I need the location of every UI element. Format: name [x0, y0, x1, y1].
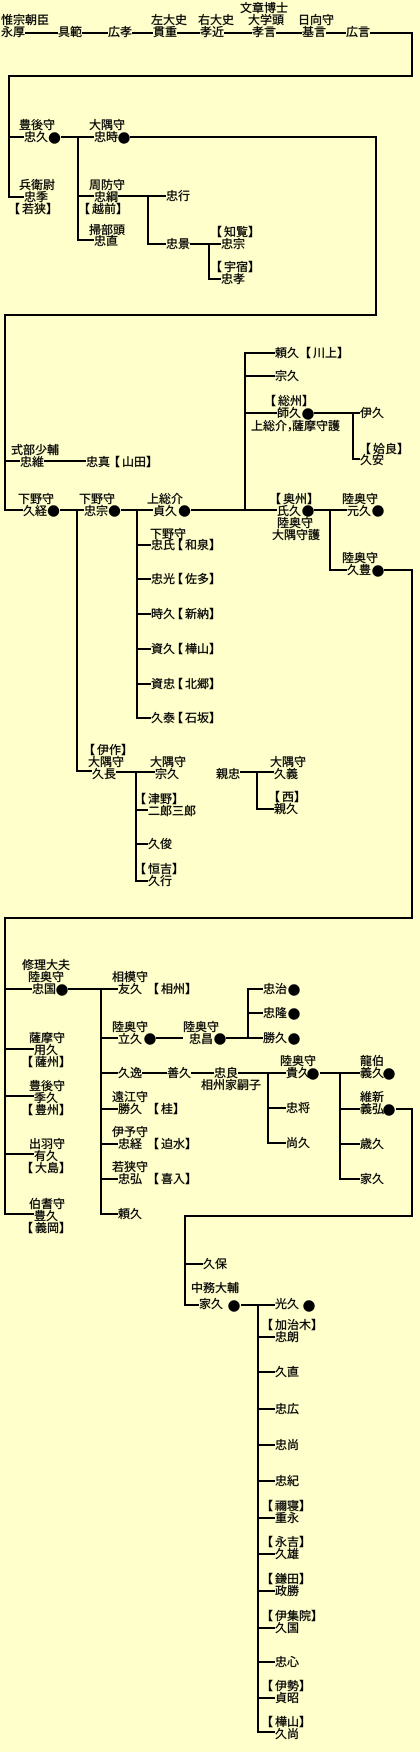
person 永厚 [1, 26, 24, 37]
wire 忠維-忠真 [44, 460, 86, 462]
person 伊久 [360, 407, 383, 418]
wire wrap3 vertical right [411, 569, 413, 919]
title 大隅守 [151, 756, 186, 767]
wire stub 二郎三郎 [137, 809, 148, 811]
family 津野 [142, 793, 176, 804]
title 掃部頭 [89, 224, 124, 235]
person 氏久 [278, 505, 301, 516]
wire stub 友久 [102, 988, 118, 990]
family 山田 [116, 456, 150, 467]
wire stub 久逸 [102, 1072, 118, 1074]
wire stub 義久 [341, 1072, 360, 1074]
wire stub 久泰 [138, 717, 151, 719]
person 歳久 [360, 1138, 383, 1149]
family 樺山 [179, 643, 213, 654]
wire 永厚-具範 [25, 32, 58, 34]
wire stub 家久 [341, 1178, 360, 1180]
wire vert 親久 [256, 771, 258, 810]
wire 立久-忠昌 [156, 1037, 183, 1039]
person 忠維 [20, 456, 43, 467]
person 義久 [361, 1067, 384, 1078]
wire 忠久-忠時 [61, 136, 94, 138]
wire stub 久俊 [137, 843, 148, 845]
wire vert 家久 children [257, 1304, 259, 1733]
family 禰寝 [269, 1500, 303, 1511]
title 相模守 [112, 971, 147, 982]
wire 貴久-right [320, 1072, 339, 1074]
person 忠紀 [275, 1475, 298, 1486]
title 陸奥守 [184, 1021, 218, 1032]
node 忠国 [56, 984, 67, 995]
person 久雄 [275, 1548, 298, 1559]
person 忠直 [94, 235, 117, 246]
node 忠隆 [288, 1008, 299, 1019]
wire 具範-広孝 [82, 32, 108, 34]
node 家久 [228, 1300, 239, 1311]
person 勝久(桂) [118, 1103, 141, 1114]
family 知覧 [218, 226, 252, 237]
wire stub 忠光 [138, 578, 151, 580]
person 重永 [276, 1512, 299, 1523]
person 勝久(昌子) [263, 1032, 286, 1043]
wire wrap4 horizontal [184, 1215, 413, 1217]
wire 忠国-right [68, 988, 100, 990]
wire wrap2 horizontal [4, 314, 377, 316]
person 資久 [152, 643, 175, 654]
title 大隅守 [89, 756, 124, 767]
person 久俊 [148, 838, 171, 849]
wire 家久-光久 [241, 1304, 275, 1306]
wire 広言-right [370, 32, 413, 34]
person 宗久(伊作) [156, 768, 179, 779]
wire stub 久直 [259, 1371, 275, 1373]
person 貞久 [154, 505, 177, 516]
wire stub 師久 [246, 412, 277, 414]
wire stub 義弘 [341, 1108, 360, 1110]
family 伊作 [91, 744, 125, 755]
wire vert 忠景 children [208, 243, 210, 280]
person 尚久 [287, 1137, 309, 1148]
wire stub 宗久 [246, 375, 275, 377]
person 忠経 [118, 1138, 141, 1149]
title 惟宗朝臣 [1, 14, 48, 25]
wire stub 忠紀 [259, 1480, 275, 1482]
wire stub 勝久桂 [102, 1108, 118, 1110]
wire stub 久国 [259, 1627, 275, 1629]
person 忠良 [214, 1067, 237, 1078]
wire vert 忠将尚久 [267, 1072, 269, 1144]
family 迫水 [155, 1138, 189, 1149]
title 左大史 [151, 14, 186, 25]
family 豊州 [29, 1104, 63, 1115]
title 大学頭 [249, 14, 284, 25]
wire wrap4 vertical left [184, 1215, 186, 1306]
person 久泰 [151, 712, 174, 723]
family 大島 [29, 1162, 63, 1173]
title 出羽守 [30, 1138, 64, 1149]
wire vert 忠時 children [77, 137, 79, 241]
wire stub 久行 [137, 880, 148, 882]
wire stub 政勝 [259, 1590, 275, 1592]
person 久行 [148, 875, 171, 886]
person 忠時 [94, 131, 117, 142]
wire 孝言-基言 [276, 32, 302, 34]
wire wrap3 vertical left [4, 917, 6, 1215]
node 忠宗 [109, 505, 120, 516]
family 姶良 [367, 443, 401, 454]
wire stub 家久中務 [186, 1304, 199, 1306]
wire stub 有久 [6, 1153, 34, 1155]
family 石坂 [179, 712, 213, 723]
title 兵衛尉 [20, 179, 55, 190]
wire vert 師久 children [352, 412, 354, 460]
title 陸奥守 [281, 1055, 315, 1066]
person 久義 [274, 768, 297, 779]
family 薩州 [29, 1056, 63, 1067]
person 広言 [346, 26, 369, 37]
wire stub 忠治 [249, 988, 263, 990]
person 忠景 [166, 238, 189, 249]
title 薩摩守 [30, 1032, 65, 1043]
person 久尚 [275, 1728, 297, 1739]
title 豊後守 [30, 1080, 65, 1091]
wire stub 資久 [138, 648, 151, 650]
person 家久(中務) [200, 1298, 223, 1309]
person 忠光 [151, 573, 174, 584]
note 陸奥守 [278, 517, 312, 528]
person 忠弘 [118, 1173, 141, 1184]
family 総州 [272, 395, 306, 406]
wire 善久-忠良 [191, 1072, 214, 1074]
wire 忠景-忠宗 [190, 243, 221, 245]
person 友久 [118, 983, 141, 994]
wire vert 宗久 children [135, 771, 137, 882]
note 上総介薩摩守護 [252, 420, 340, 431]
title 式部少輔 [12, 444, 59, 455]
title 龍伯 [361, 1055, 383, 1066]
family 和泉 [179, 539, 213, 550]
wire stub 忠季 [9, 196, 24, 198]
family 桂 [155, 1103, 177, 1114]
wire stub 忠久 [9, 136, 24, 138]
wire vert 貴久 children [339, 1072, 341, 1180]
person 忠広 [275, 1403, 298, 1414]
person 孝言 [252, 26, 275, 37]
person 忠国 [32, 983, 54, 994]
person 義弘 [361, 1103, 384, 1114]
title 豊後守 [20, 119, 55, 130]
title 伯耆守 [29, 1198, 64, 1209]
wire vert to 久長 [76, 509, 78, 772]
wire stub 忠弘 [102, 1178, 118, 1180]
person 宗久 [276, 370, 299, 381]
node 忠久 [49, 132, 60, 143]
wire wrap2 vertical right [375, 136, 377, 316]
family 鎌田 [269, 1573, 303, 1584]
wire wrap2 vertical left [4, 314, 6, 511]
title 伊予守 [112, 1126, 147, 1137]
family 佐多 [179, 573, 213, 584]
note 相州家嗣子 [201, 1079, 260, 1090]
family 西 [276, 791, 298, 802]
wire stub 貞昭 [259, 1697, 275, 1699]
wire stub 尚久 [269, 1142, 286, 1144]
title 陸奥守 [343, 493, 377, 504]
family 北郷 [179, 678, 213, 689]
wire wrap4 vertical right [411, 1108, 413, 1217]
wire stub 時久 [138, 613, 151, 615]
person 貴久 [287, 1067, 310, 1078]
family 相州 [155, 983, 189, 994]
person 久長 [92, 768, 115, 779]
title 周防守 [89, 179, 124, 190]
person 忠尚 [275, 1439, 297, 1450]
wire stub 忠景 [149, 243, 166, 245]
person 用久 [34, 1044, 57, 1055]
title 下野守 [19, 493, 54, 504]
node 忠時 [118, 132, 129, 143]
person 季久 [34, 1092, 57, 1103]
title 右大史 [198, 14, 233, 25]
person 善久 [168, 1067, 191, 1078]
person 親忠 [216, 768, 239, 779]
wire stub 忠隆 [249, 1012, 263, 1014]
person 忠宗 [84, 505, 107, 516]
family 宇宿 [218, 261, 252, 272]
person 忠心 [275, 1656, 298, 1667]
person 忠氏 [151, 539, 174, 550]
title 陸奥守 [343, 552, 377, 563]
wire stub 久保 [186, 1263, 203, 1265]
person 広孝 [108, 26, 131, 37]
person 家久 [361, 1173, 384, 1184]
person 有久 [34, 1150, 57, 1161]
family 奥州 [277, 493, 311, 504]
note 大隅守護 [273, 529, 320, 540]
person 資忠 [152, 678, 175, 689]
wire wrap1 horizontal [8, 75, 413, 77]
wire stub 久経 [6, 509, 23, 511]
wire 孝近-孝言 [224, 32, 252, 34]
person 具範 [59, 26, 82, 37]
node 勝久 [288, 1033, 299, 1044]
family 喜入 [155, 1173, 189, 1184]
person 忠孝 [221, 273, 244, 284]
family 川上 [307, 347, 341, 358]
person 久国 [275, 1622, 298, 1633]
wire vert 氏久 children [329, 509, 331, 571]
wire vert 忠綱 children [147, 195, 149, 245]
person 貞昭 [276, 1692, 298, 1703]
person 師久 [278, 407, 301, 418]
family 永吉 [269, 1536, 303, 1547]
title 大隅守 [90, 119, 125, 130]
wire stub 久長 [78, 770, 92, 772]
node 義久 [383, 1068, 394, 1079]
wire stub 久安 [354, 458, 360, 460]
wire stub 忠維 [5, 460, 20, 462]
person 元久 [348, 505, 371, 516]
title 遠江守 [112, 1091, 147, 1102]
family 樺山 [269, 1716, 303, 1727]
person 忠久 [24, 131, 47, 142]
title 維新 [360, 1091, 383, 1102]
wire wrap1 vertical right [411, 32, 413, 77]
person 孝近 [200, 26, 223, 37]
wire 貫重-孝近 [177, 32, 200, 34]
person 忠治 [263, 983, 286, 994]
person 頼久(2) [118, 1208, 141, 1219]
title 若狭守 [112, 1161, 147, 1172]
person 久豊 [347, 564, 370, 575]
wire stub 歳久 [341, 1143, 360, 1145]
title 大隅守 [271, 756, 306, 767]
wire wrap1 vertical left [8, 75, 10, 198]
wire 親忠-久義 [240, 771, 274, 773]
person 忠行 [166, 190, 189, 201]
family 新納 [179, 608, 213, 619]
wire vert 貞久 children [244, 352, 246, 511]
person 久直 [275, 1366, 298, 1377]
person 豊久 [35, 1210, 58, 1221]
wire 忠綱-忠行 [118, 195, 166, 197]
family 義岡 [29, 1222, 63, 1233]
wire stub 久雄 [259, 1553, 275, 1555]
wire vert 忠国 children [100, 988, 102, 1215]
wire 氏久-元久 [314, 509, 347, 511]
wire 久経-忠宗 [60, 509, 84, 511]
wire stub 用久 [6, 1048, 34, 1050]
wire stub 忠孝 [210, 278, 221, 280]
wire vert 忠宗 children [136, 509, 138, 719]
person 光久 [275, 1298, 298, 1309]
family 伊集院 [269, 1610, 315, 1621]
title 修理大夫 [22, 959, 69, 970]
wire stub 久尚 [259, 1731, 275, 1733]
wire stub 豊久 [6, 1213, 34, 1215]
wire 基言-広言 [326, 32, 346, 34]
person 忠季 [24, 191, 47, 202]
wire stub 忠将 [269, 1107, 286, 1109]
title 上総介 [148, 493, 183, 504]
wire stub 忠心 [259, 1661, 275, 1663]
wire 忠昌-勝久 [226, 1037, 263, 1039]
wire stub 忠広 [259, 1408, 275, 1410]
wire 貞久-氏久 [191, 509, 277, 511]
node 氏久 [302, 505, 313, 516]
wire stub 忠直 [79, 239, 94, 241]
person 親久 [274, 803, 297, 814]
node 師久 [302, 408, 313, 419]
wire stub 久豊 [331, 569, 347, 571]
person 政勝 [275, 1585, 298, 1596]
wire stub 季久 [6, 1095, 34, 1097]
wire 忠良-貴久 [238, 1072, 286, 1074]
wire stub 立久 [102, 1037, 118, 1039]
title 下野守 [80, 493, 115, 504]
title 中務大輔 [192, 1282, 238, 1293]
person 基言 [302, 26, 325, 37]
family 越前 [86, 203, 120, 214]
person 立久 [119, 1033, 142, 1044]
title 陸奥守 [29, 971, 63, 982]
person 忠昌 [189, 1033, 211, 1044]
family 若狭 [16, 203, 50, 214]
node 貴久 [307, 1068, 318, 1079]
person 久逸 [118, 1067, 141, 1078]
person 久経 [23, 505, 46, 516]
person 二郎三郎 [149, 805, 196, 816]
person 忠綱 [94, 191, 117, 202]
person 頼久 [275, 347, 298, 358]
wire 広孝-貫重 [132, 32, 153, 34]
wire stub 親久 [258, 808, 274, 810]
title 日向守 [300, 14, 333, 25]
wire stub 頼久2 [102, 1213, 118, 1215]
wire stub 忠国 [6, 988, 32, 990]
title 陸奥守 [113, 1021, 147, 1032]
node 光久 [303, 1300, 314, 1311]
person 忠宗(知覧) [221, 238, 244, 249]
title 文章博士 [240, 2, 287, 13]
wire stub 忠朗 [259, 1336, 275, 1338]
wire vert 忠昌 children [247, 988, 249, 1039]
wire stub 忠経 [102, 1143, 118, 1145]
wire stub 伊久 [354, 412, 360, 414]
person 久安 [360, 454, 383, 465]
wire 忠宗-貞久 [121, 509, 153, 511]
wire 忠時-right [130, 136, 377, 138]
person 忠真 [86, 456, 109, 467]
family 伊勢 [269, 1680, 303, 1691]
wire 久長-宗久 [116, 771, 155, 773]
wire stub 重永 [259, 1517, 275, 1519]
person 忠隆 [263, 1007, 286, 1018]
wire stub 資忠 [138, 683, 151, 685]
wire wrap3 horizontal [4, 917, 413, 919]
node 忠治 [288, 984, 299, 995]
node 義弘 [383, 1104, 394, 1115]
family 恒吉 [142, 863, 176, 874]
node 立久 [144, 1033, 155, 1044]
wire 義弘-right [396, 1108, 413, 1110]
wire 久豊-right [384, 569, 413, 571]
title 下野守 [151, 528, 186, 539]
node 久豊 [372, 565, 383, 576]
node 貞久 [179, 505, 190, 516]
wire stub 忠綱 [79, 195, 94, 197]
person 忠将 [286, 1102, 309, 1113]
node 久経 [48, 505, 59, 516]
wire stub 忠氏 [138, 544, 151, 546]
person 久保 [203, 1258, 226, 1269]
wire stub 頼久 [246, 352, 275, 354]
wire 久逸-善久 [142, 1072, 167, 1074]
wire stub 忠尚 [259, 1444, 275, 1446]
family 加治木 [269, 1319, 315, 1330]
person 貫重 [154, 26, 177, 37]
person 時久 [152, 608, 175, 619]
person 忠朗 [275, 1331, 297, 1342]
wire 師久-right [314, 412, 354, 414]
node 元久 [372, 505, 383, 516]
node 忠昌 [214, 1033, 225, 1044]
